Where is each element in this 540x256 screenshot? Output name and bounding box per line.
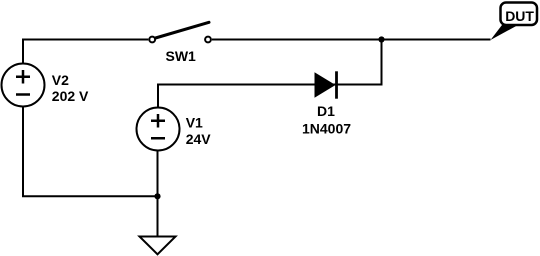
- svg-text:SW1: SW1: [166, 48, 197, 64]
- svg-text:D1: D1: [317, 103, 335, 119]
- svg-text:202 V: 202 V: [52, 88, 89, 104]
- svg-text:DUT: DUT: [505, 8, 534, 24]
- svg-text:V2: V2: [52, 72, 69, 88]
- svg-text:V1: V1: [186, 115, 203, 131]
- svg-text:24V: 24V: [186, 131, 212, 147]
- svg-text:1N4007: 1N4007: [302, 121, 351, 137]
